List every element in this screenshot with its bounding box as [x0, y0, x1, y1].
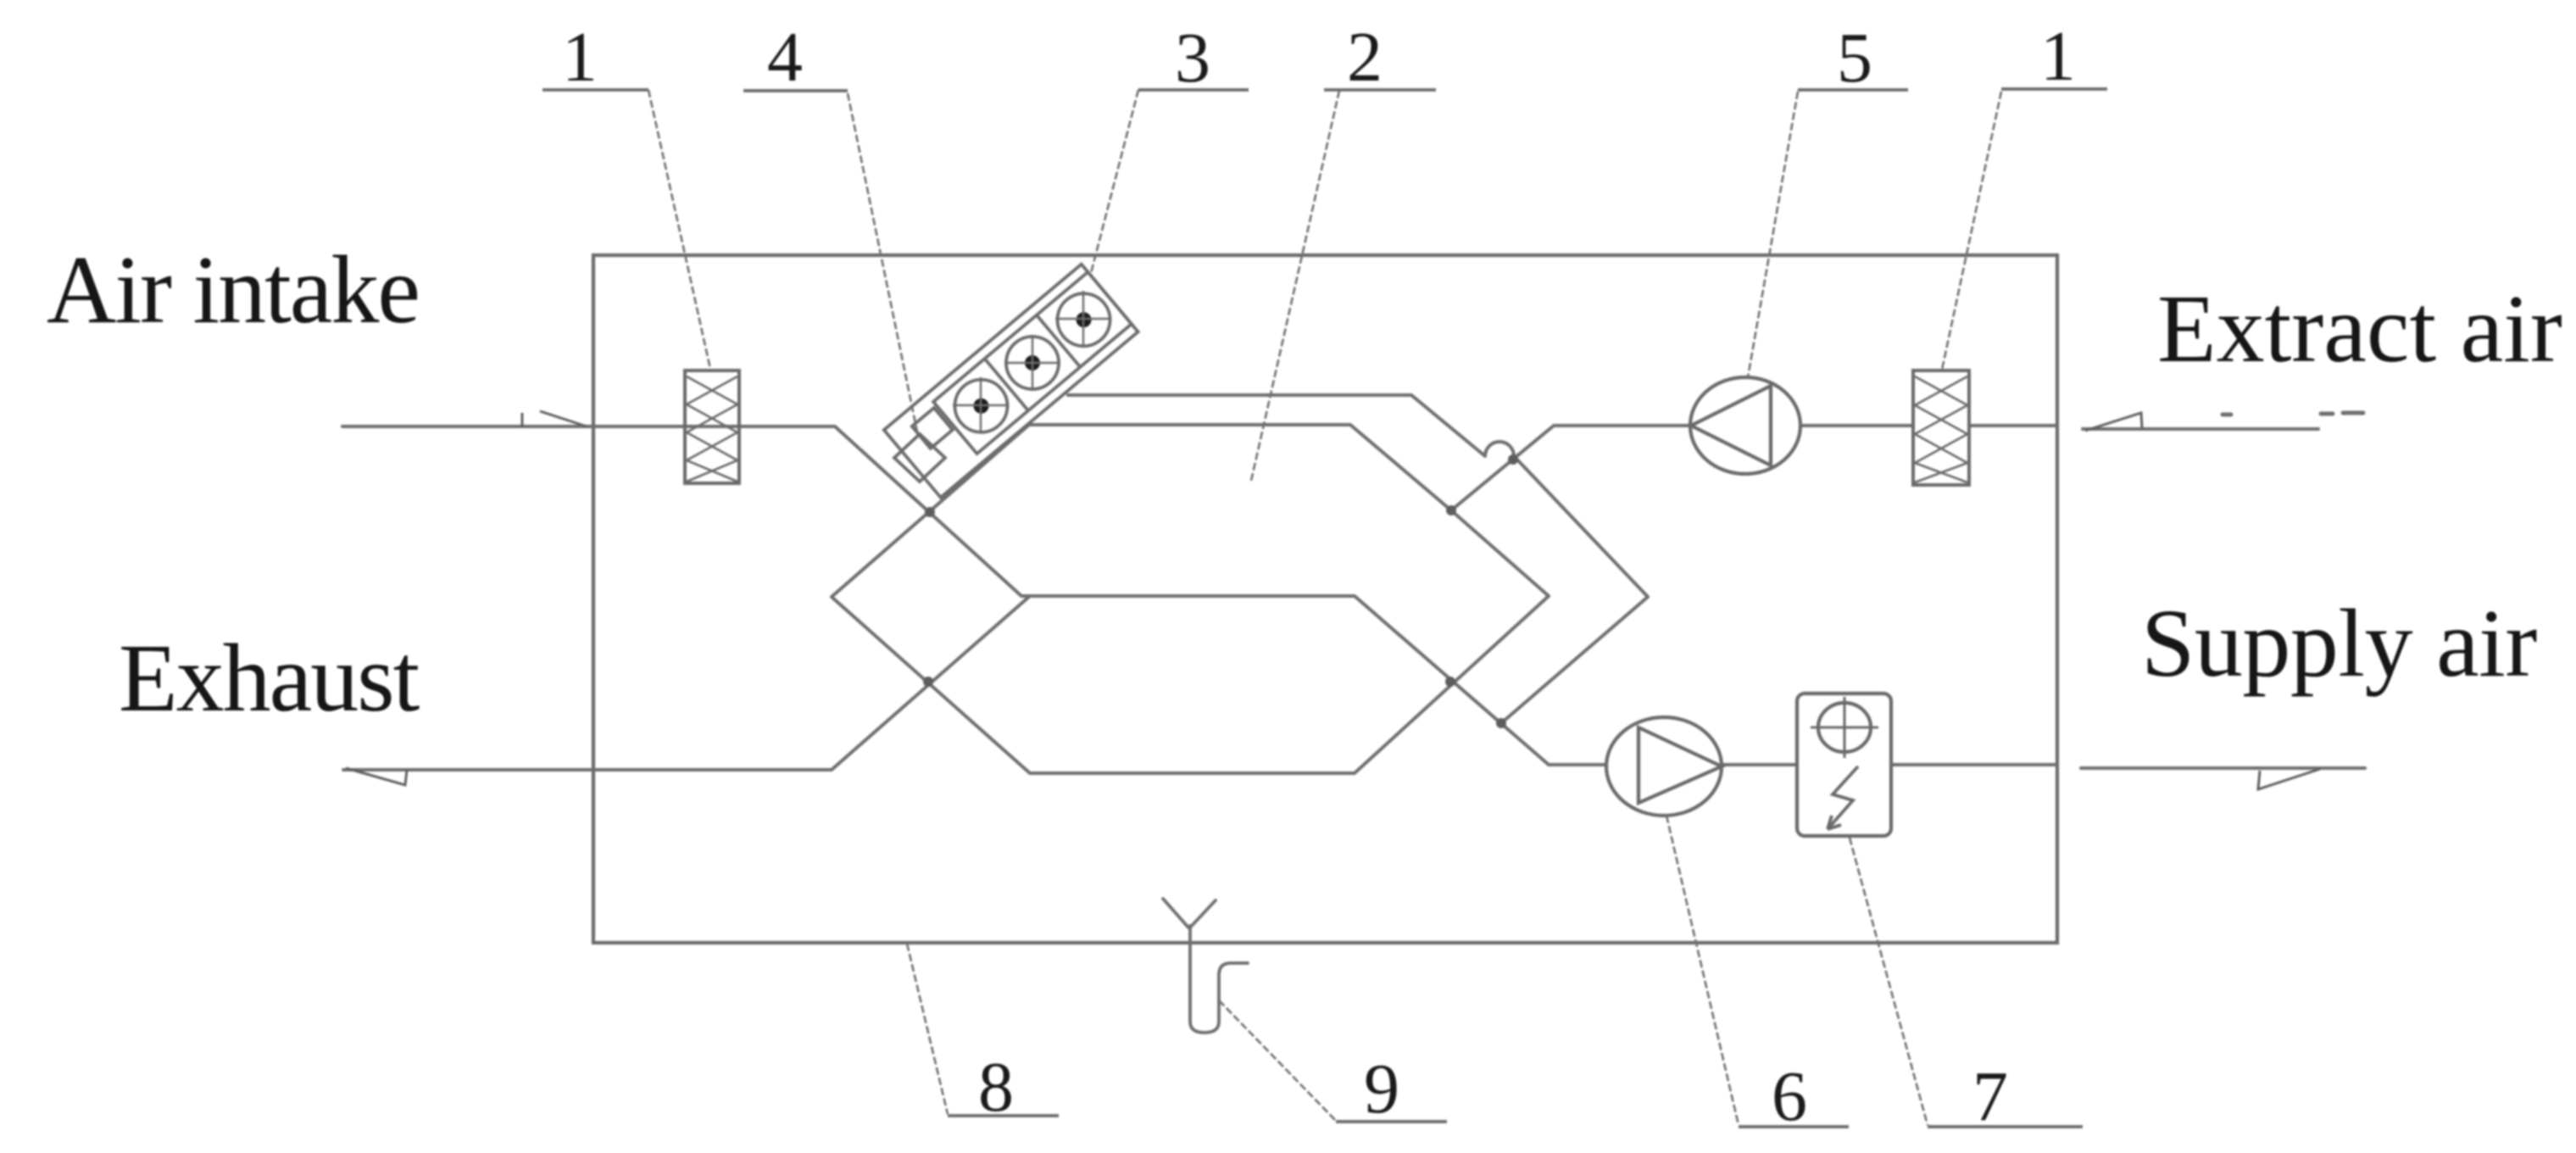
svg-text:6: 6	[1772, 1057, 1807, 1136]
svg-text:Air intake: Air intake	[47, 236, 419, 343]
svg-text:1: 1	[2040, 17, 2076, 96]
svg-text:Exhaust: Exhaust	[119, 624, 420, 732]
svg-text:1: 1	[562, 18, 598, 97]
svg-text:5: 5	[1837, 19, 1872, 97]
svg-text:2: 2	[1347, 18, 1383, 97]
svg-text:4: 4	[767, 18, 803, 97]
svg-text:7: 7	[1972, 1057, 2008, 1136]
svg-text:9: 9	[1364, 1050, 1399, 1128]
svg-text:Supply air: Supply air	[2141, 589, 2537, 697]
svg-text:8: 8	[978, 1048, 1014, 1127]
svg-text:Extract air: Extract air	[2157, 275, 2562, 382]
svg-text:3: 3	[1175, 19, 1210, 97]
